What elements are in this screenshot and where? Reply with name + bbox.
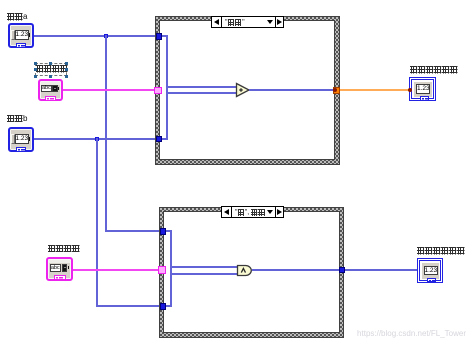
junction a	[104, 34, 108, 38]
case1 wire to add input 1	[166, 86, 237, 88]
and function	[236, 264, 255, 277]
combo 算术运算 (string combo box terminal)	[38, 79, 64, 101]
control 输入a (numeric control terminal)	[8, 23, 34, 48]
label 输入a	[7, 13, 27, 21]
case structure 1 (加法)	[155, 16, 340, 165]
wire a branch vertical	[105, 35, 107, 231]
wire 算术运算 (magenta)	[63, 89, 156, 91]
indicator 布尔运算输出 (numeric indicator terminal)	[417, 258, 443, 283]
add function	[235, 82, 251, 98]
wire b branch to case2 tunnel	[96, 305, 162, 307]
case2 inside wire from tunnel b2	[166, 305, 172, 307]
combo2 bottom badge	[54, 275, 66, 280]
case1 wire add output	[249, 89, 333, 91]
wire 布尔运算 (magenta)	[73, 269, 160, 271]
wire to 算数运算输出 (orange)	[340, 89, 410, 91]
case1 inside wire from tunnel a	[162, 35, 168, 37]
case2 wire to and input 2	[170, 273, 238, 275]
tunnel a (case1 left top)	[156, 33, 163, 40]
indicator 算数运算输出 (numeric indicator terminal)	[409, 77, 436, 101]
tunnel out case1 (orange)	[333, 87, 340, 94]
coercion dot case1 tunnel	[333, 88, 337, 92]
wire a (blue)	[34, 35, 157, 37]
selector label case1	[211, 16, 284, 28]
tunnel b2 (case2 left bottom)	[160, 303, 167, 310]
selector tunnel case1 (magenta)	[154, 87, 162, 95]
selector tunnel case2 (magenta)	[158, 266, 166, 274]
tunnel out case2 (blue)	[339, 267, 346, 274]
tunnel b (case1 left bottom)	[156, 136, 163, 143]
label 布尔运算输出	[417, 247, 465, 255]
watermark	[357, 329, 466, 338]
label 布尔运算	[48, 245, 80, 253]
case structure 2 (与,默认)	[159, 207, 344, 338]
label 算数运算输出	[410, 66, 458, 74]
wire a branch to case2 tunnel	[105, 230, 162, 232]
case2 wire and output	[252, 269, 339, 271]
combo 布尔运算 (boolean combo box terminal)	[46, 257, 73, 281]
coercion dot at indicator	[408, 88, 412, 92]
selection handles	[34, 62, 37, 65]
wire b branch vertical	[96, 138, 98, 307]
case1 wire to add input 2	[166, 92, 237, 94]
wire to 布尔运算输出 (blue)	[345, 269, 417, 271]
control 输入b (numeric control terminal)	[8, 127, 34, 152]
case2 wire to and input 1	[170, 266, 238, 268]
case1 inside vertical wire	[166, 35, 168, 139]
case2 inside vertical wire	[170, 230, 172, 307]
selector label case2	[221, 206, 284, 218]
wire b (blue)	[34, 138, 157, 140]
junction b	[95, 137, 99, 141]
combo1 bottom badge	[45, 96, 56, 101]
label 算术运算 (selected)	[35, 63, 67, 76]
case2 inside wire from tunnel a2	[166, 230, 172, 232]
tunnel a2 (case2 left top)	[160, 228, 167, 235]
case1 inside wire from tunnel b	[162, 138, 168, 140]
label 输入b	[7, 115, 27, 123]
